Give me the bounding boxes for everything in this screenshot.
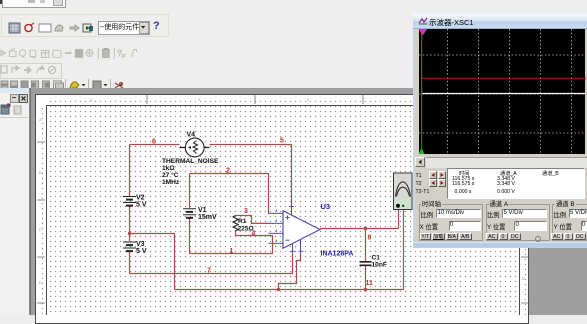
trace red reference bbox=[422, 77, 586, 79]
wire C1 bottom lead bbox=[365, 266, 367, 290]
ruler dots top band bbox=[48, 97, 519, 102]
wire C1 top lead bbox=[365, 229, 367, 262]
svg-text:THERMAL_NOISE: THERMAL_NOISE bbox=[162, 158, 219, 165]
bottom blue border bbox=[413, 242, 587, 248]
row3 toolbar bbox=[0, 63, 62, 79]
net number labels bbox=[152, 138, 373, 288]
wire V3 bottom to net7 bbox=[129, 251, 131, 274]
group 通道A bbox=[486, 204, 550, 241]
row4 toolbar bbox=[0, 78, 130, 92]
svg-text:2: 2 bbox=[226, 168, 230, 175]
op-amp U3 bbox=[269, 205, 321, 254]
svg-text:10nF: 10nF bbox=[372, 262, 387, 269]
T cursor buttons bbox=[429, 171, 437, 179]
icon grey hand bbox=[55, 25, 63, 31]
magenta trigger marker bbox=[419, 29, 428, 36]
icon white rect bbox=[39, 24, 51, 32]
battery V3 bbox=[123, 241, 147, 255]
node junction net8-C1 bbox=[364, 227, 367, 230]
title bar bbox=[413, 10, 587, 14]
wire scope left terminal down bbox=[398, 206, 400, 229]
svg-text:1kΩ: 1kΩ bbox=[162, 165, 175, 172]
icon Db export bbox=[83, 24, 93, 32]
battery V2 bbox=[123, 195, 147, 209]
sheet drawing area with grid dots bbox=[46, 105, 520, 316]
battery V1 bbox=[183, 207, 217, 221]
oscilloscope icon XSC1 bbox=[394, 173, 413, 210]
svg-text:3: 3 bbox=[244, 208, 248, 215]
scrollbar bbox=[415, 156, 587, 167]
wire net2 to opamp pin1 bbox=[190, 174, 270, 214]
svg-text:11: 11 bbox=[366, 280, 374, 287]
group 时间轴 bbox=[419, 204, 483, 241]
icon red component bbox=[25, 23, 34, 32]
group 通道B bbox=[552, 204, 587, 241]
svg-text:R1: R1 bbox=[238, 218, 247, 225]
capacitor C1 bbox=[360, 255, 387, 269]
panel icon row bbox=[0, 103, 29, 118]
svg-text:5 V: 5 V bbox=[136, 248, 147, 255]
wire V1 bottom to net1 bbox=[189, 218, 191, 253]
svg-text:INA128PA: INA128PA bbox=[321, 251, 354, 258]
svg-text:1: 1 bbox=[230, 248, 234, 255]
icon new-database bbox=[9, 23, 20, 33]
wire net5 V4 right to opamp V+ bbox=[210, 145, 292, 205]
row2 toolbar (disabled grey icons) bbox=[0, 45, 160, 61]
svg-text:5: 5 bbox=[280, 138, 284, 145]
node junction bus-C1 bbox=[364, 288, 367, 291]
readout panel bbox=[447, 168, 585, 199]
svg-text:15mV: 15mV bbox=[198, 214, 217, 221]
noise source V4 bbox=[180, 132, 210, 157]
svg-text:27 °C: 27 °C bbox=[162, 171, 179, 179]
wire net3 R1 top to opamp pin2 bbox=[236, 216, 270, 224]
wire V1 top to net2 bbox=[189, 174, 191, 208]
row0 remnant combo bbox=[0, 0, 7, 4]
svg-text:V4: V4 bbox=[187, 132, 196, 139]
resistor R1 bbox=[233, 216, 255, 233]
svg-text:V2: V2 bbox=[136, 195, 145, 202]
wire bottom bus bbox=[175, 289, 404, 291]
label THERMAL_NOISE block bbox=[162, 158, 219, 186]
svg-text:C1: C1 bbox=[372, 255, 381, 262]
svg-text:6: 6 bbox=[152, 139, 156, 146]
green time cursor bbox=[421, 29, 423, 154]
wire V2 to junction to V3 bbox=[129, 206, 131, 242]
svg-text:225Ω: 225Ω bbox=[238, 225, 255, 232]
wire net4 R1 bottom bbox=[236, 231, 273, 235]
wire left rail top bbox=[129, 145, 131, 197]
node junction dots bbox=[128, 227, 367, 291]
wire branch junction to bottom bus bbox=[130, 234, 175, 290]
svg-text:8: 8 bbox=[368, 235, 372, 242]
wire scope right terminal down bbox=[403, 206, 405, 290]
svg-text:U3: U3 bbox=[321, 202, 331, 211]
svg-text:V3: V3 bbox=[136, 241, 145, 248]
wire net8 output bbox=[320, 228, 399, 230]
svg-text:5 V: 5 V bbox=[136, 202, 147, 209]
wire net1 bbox=[190, 236, 273, 254]
icon grey arrow bbox=[70, 25, 79, 31]
svg-text:1MHz: 1MHz bbox=[162, 179, 180, 186]
node junction left rail bbox=[128, 232, 131, 235]
wire REF staircase bbox=[279, 253, 301, 289]
svg-text:7: 7 bbox=[207, 268, 211, 275]
svg-text:V1: V1 bbox=[198, 207, 207, 214]
wire net6 V4 left bbox=[130, 144, 180, 146]
row1 toolbar bbox=[1, 14, 169, 37]
trace channel A white bbox=[422, 93, 586, 95]
sheet zone ticks top band bbox=[30, 88, 530, 315]
schematic sheet frame bbox=[35, 94, 529, 324]
node junction bus-REF bbox=[277, 288, 280, 291]
display bbox=[419, 29, 585, 154]
in-use components combo bbox=[98, 21, 150, 35]
wire net7 bbox=[130, 253, 293, 273]
